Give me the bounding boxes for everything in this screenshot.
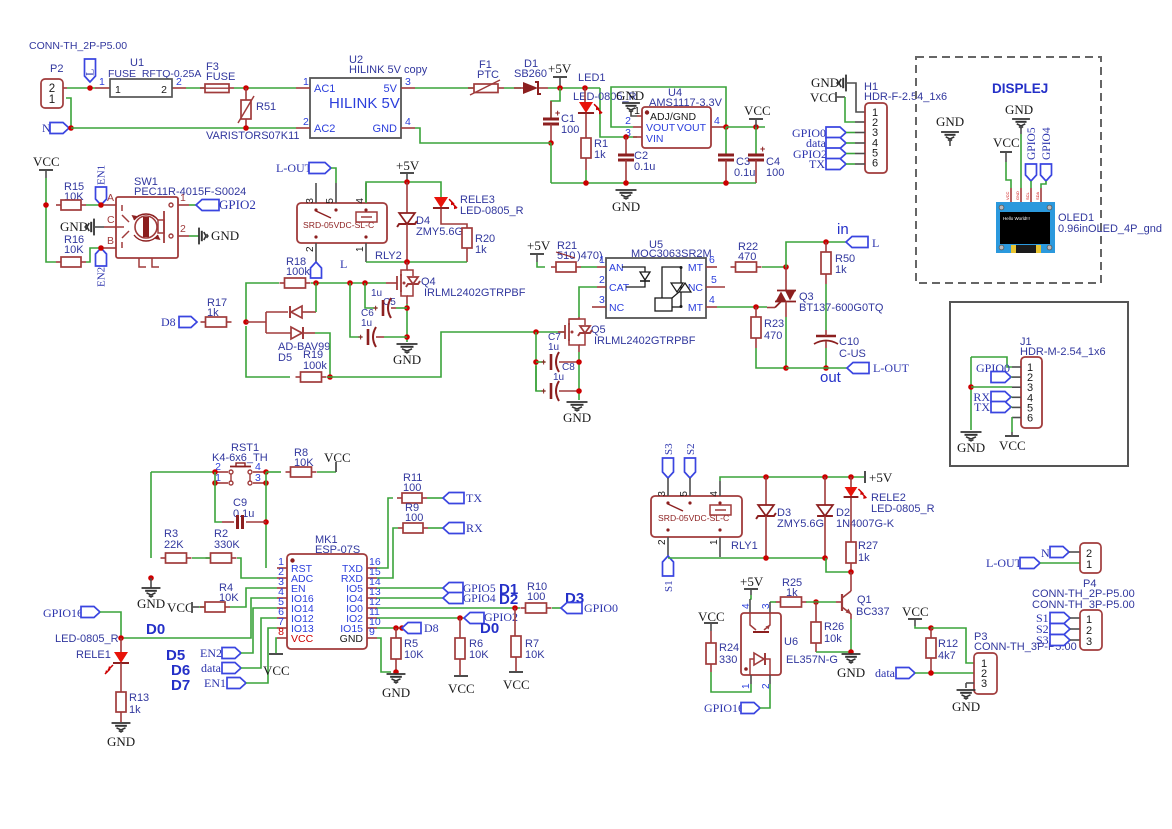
svg-text:GPIO4: GPIO4 — [1041, 127, 1053, 160]
junction gnd rail C2 — [623, 180, 629, 186]
transistor Q1 BC337 — [836, 572, 890, 619]
junction R5 gnd — [393, 669, 399, 675]
capacitor C2 — [618, 137, 655, 183]
connector footprint labels — [1032, 588, 1135, 611]
svg-text:BC337: BC337 — [856, 606, 890, 618]
resistor R2 — [206, 528, 241, 563]
resistor R11 — [397, 472, 427, 503]
svg-text:GND: GND — [957, 440, 985, 455]
svg-text:in: in — [837, 221, 849, 238]
net flag TX (J1) — [974, 400, 1012, 414]
svg-text:LED-0805_R: LED-0805_R — [55, 633, 119, 645]
svg-text:SDA: SDA — [1035, 191, 1040, 200]
svg-text:EN2: EN2 — [96, 267, 108, 287]
net flag TX (H1) — [809, 157, 855, 171]
svg-text:100k: 100k — [286, 266, 310, 278]
svg-text:VCC: VCC — [698, 609, 725, 624]
net flag D8 (r17) — [161, 315, 197, 329]
svg-text:+5V: +5V — [740, 574, 764, 589]
svg-text:TX: TX — [809, 157, 825, 171]
svg-text:R51: R51 — [256, 101, 276, 113]
svg-text:100: 100 — [527, 591, 545, 603]
junction R17/D5 — [243, 319, 249, 325]
svg-text:5: 5 — [711, 274, 717, 286]
junction +5V rail at LED1 — [582, 85, 588, 91]
svg-text:AN: AN — [609, 262, 624, 274]
wire R16 to B — [86, 248, 104, 262]
ground GND (R13) — [107, 723, 135, 749]
wire D5 bracket — [246, 312, 266, 333]
wire Q5 gate col down — [535, 332, 537, 391]
svg-text:FUSE: FUSE — [206, 71, 235, 83]
svg-text:C: C — [107, 214, 115, 226]
svg-text:R26: R26 — [824, 621, 844, 633]
power port VCC (R24) — [698, 609, 725, 631]
capacitor C8 — [536, 362, 579, 401]
svg-text:VCC: VCC — [33, 154, 60, 169]
svg-text:2: 2 — [305, 246, 316, 252]
resistor R25 — [776, 577, 807, 607]
resistor R15 — [56, 181, 86, 210]
svg-text:GND: GND — [1005, 102, 1033, 117]
wire Q4 source to gnd — [406, 304, 408, 342]
svg-text:RLY1: RLY1 — [731, 540, 758, 552]
svg-text:0.1u: 0.1u — [634, 161, 655, 173]
wire J1 pin1 loop — [971, 357, 1012, 367]
resistor R17 — [201, 297, 232, 327]
ground GND (displej left) — [936, 114, 964, 146]
DISPLEJ title — [992, 81, 1048, 96]
svg-text:A: A — [107, 192, 114, 204]
svg-text:R24: R24 — [719, 642, 739, 654]
wire J1 gnd column — [970, 357, 972, 430]
LED RELE1 — [105, 638, 129, 692]
svg-text:1k: 1k — [475, 244, 487, 256]
resistor R7 — [511, 608, 545, 672]
ground GND (R3) — [137, 578, 165, 611]
svg-text:L-OUT: L-OUT — [276, 161, 313, 175]
svg-text:HILINK 5V copy: HILINK 5V copy — [349, 64, 428, 76]
wire rst1 left col to C9 — [215, 472, 222, 522]
wire IO0 row — [377, 607, 520, 609]
svg-text:NC: NC — [609, 302, 625, 314]
svg-text:RLY2: RLY2 — [375, 250, 402, 262]
capacitor C5 — [365, 283, 407, 318]
label D8 (esp) — [424, 621, 439, 635]
wire R15 to A — [86, 204, 104, 206]
resistor R18 — [280, 256, 311, 288]
svg-text:3: 3 — [599, 294, 605, 306]
wire R18 left down to R17 row — [246, 283, 279, 322]
svg-text:4: 4 — [714, 115, 720, 127]
varistor R51 — [238, 88, 276, 128]
svg-text:10K: 10K — [525, 649, 545, 661]
junction IO0/R7 — [512, 605, 518, 611]
svg-text:C10: C10 — [839, 336, 859, 348]
relay RLY1 — [651, 478, 758, 557]
net flag GPIO0 (J1) — [976, 361, 1012, 383]
resistor R27 — [846, 540, 878, 572]
resistor R16 — [56, 234, 86, 267]
svg-text:ZMY5.6G: ZMY5.6G — [416, 226, 463, 238]
svg-text:GND: GND — [137, 596, 165, 611]
svg-text:SCL: SCL — [1025, 191, 1030, 200]
svg-text:L: L — [83, 69, 97, 76]
wire R9 to RX flag — [428, 527, 443, 529]
svg-text:1: 1 — [49, 94, 55, 106]
junction R12 top — [928, 625, 934, 631]
wire N line — [71, 127, 296, 129]
junction rst1 br — [263, 480, 269, 486]
junction F3/R51 — [243, 85, 249, 91]
ground GND (R5) — [382, 674, 410, 700]
power port +5V (rly2) — [396, 158, 420, 182]
svg-text:S2: S2 — [685, 443, 697, 455]
svg-text:L: L — [340, 257, 347, 271]
svg-text:TX: TX — [974, 400, 990, 414]
junction +5V rail at C1 drop — [557, 85, 563, 91]
svg-text:EN2: EN2 — [200, 646, 222, 660]
wire R25 left to U6 pin3 — [770, 602, 776, 613]
svg-text:U6: U6 — [784, 636, 798, 648]
svg-text:1N4007G-K: 1N4007G-K — [836, 518, 895, 530]
net flag L-OUT (rly2) — [276, 161, 336, 183]
svg-text:5V: 5V — [384, 83, 398, 95]
junction N line — [68, 125, 74, 131]
net flag data (p3) — [875, 666, 915, 680]
svg-text:1k: 1k — [858, 552, 870, 564]
junction gnd/C6 — [404, 334, 410, 340]
OLED pin stubs — [1005, 188, 1041, 202]
svg-text:1: 1 — [303, 76, 309, 88]
net label D0 (gpio2) — [480, 620, 499, 637]
net flag data (esp) — [201, 618, 277, 675]
resistor R9 — [398, 502, 428, 533]
wire F1 to D1 — [504, 87, 521, 89]
push button RST1 — [212, 442, 268, 485]
wire VCC column — [46, 178, 56, 262]
wire C1 junction down to gnd rail — [550, 143, 552, 183]
net flag GPIO5 (esp) — [443, 583, 496, 596]
svg-text:D8: D8 — [161, 315, 176, 329]
svg-text:0.1u: 0.1u — [734, 167, 755, 179]
svg-text:2: 2 — [625, 115, 631, 127]
wire R4 to EN — [230, 588, 277, 607]
ground GND (encoder pin2) — [189, 228, 239, 245]
junction rail D2 — [822, 474, 828, 480]
junction C9 right — [263, 519, 269, 525]
net flag S2 (p4) — [1036, 622, 1080, 636]
svg-text:GND: GND — [936, 114, 964, 129]
net flag S3 (p4) — [1036, 633, 1080, 647]
junction gate/C6col — [347, 280, 353, 286]
power port VCC (esp pin8) — [263, 638, 290, 678]
svg-text:R13: R13 — [129, 692, 149, 704]
wire P2 pin2 to node L — [67, 87, 95, 89]
wire +5V rail rly2 — [366, 182, 441, 203]
svg-text:1: 1 — [99, 76, 105, 88]
wire node up to in — [786, 242, 846, 267]
connector P2 — [41, 63, 67, 108]
svg-text:L-OUT: L-OUT — [873, 361, 910, 375]
svg-text:VCC: VCC — [1005, 191, 1010, 200]
svg-text:1u: 1u — [361, 318, 372, 329]
net flag TX (esp) — [443, 491, 482, 505]
junction IO15 flag — [399, 625, 405, 631]
varistor value label — [206, 130, 300, 142]
resistor R5 — [391, 628, 424, 672]
ground GND (p3) — [952, 690, 980, 714]
wire GND pin9 — [377, 638, 391, 672]
power port VCC (R8) — [324, 450, 351, 472]
svg-text:+5V: +5V — [869, 470, 893, 485]
junction R51 bottom — [243, 125, 249, 131]
power port +5V (main) — [548, 61, 572, 88]
svg-text:GND: GND — [616, 88, 644, 103]
power port +5V (u5) — [527, 238, 551, 267]
resistor R23 — [751, 307, 786, 368]
junction R12 bottom — [928, 670, 934, 676]
header J1 — [1012, 336, 1106, 428]
resistor R26 — [811, 602, 844, 652]
svg-text:GPIO5: GPIO5 — [1026, 127, 1038, 160]
svg-text:5: 5 — [325, 198, 336, 204]
wire TXD to R11 — [377, 498, 393, 568]
wire R11 to TX flag — [427, 497, 443, 499]
wire rail jog to R27 — [826, 558, 851, 572]
wire rly1 +5V rail — [720, 477, 865, 481]
label LED-0805_R (rele1) — [55, 633, 119, 645]
junction IO15/R5 — [393, 625, 399, 631]
svg-text:510: 510 — [557, 250, 575, 262]
net flag GPIO4 (esp) — [443, 593, 496, 606]
wire D5 upper to R18 junction — [315, 283, 317, 312]
svg-text:C-US: C-US — [839, 348, 866, 360]
svg-text:+: + — [555, 108, 560, 118]
wire D1 to corner/+5V rail — [548, 87, 600, 89]
wire R8 to VCC — [317, 471, 336, 473]
connector P3 — [966, 631, 1077, 694]
junction R27/Q1 — [848, 569, 854, 575]
capacitor C6 — [350, 283, 407, 347]
svg-text:HILINK 5V: HILINK 5V — [329, 95, 400, 112]
power port VCC (3V3) — [744, 103, 771, 127]
svg-text:2: 2 — [161, 84, 167, 96]
junction node A — [98, 202, 104, 208]
svg-text:10K: 10K — [469, 649, 489, 661]
net label out / flag L-OUT — [820, 361, 910, 386]
svg-text:out: out — [820, 369, 842, 386]
svg-text:EL357N-G: EL357N-G — [786, 654, 838, 666]
svg-text:D0: D0 — [480, 620, 499, 637]
resistor R21 — [551, 240, 603, 272]
capacitor C1 — [543, 88, 579, 143]
svg-text:GPIO0: GPIO0 — [584, 601, 618, 615]
opto U6 EL357N — [741, 603, 838, 689]
wire R2 to ADC — [237, 558, 277, 578]
net label D2 — [499, 591, 518, 608]
junction rail RELE2 — [848, 474, 854, 480]
svg-text:5: 5 — [679, 491, 690, 497]
wire D5 lower to R19 column — [315, 333, 330, 377]
wire +5V rail corner down to VIN — [600, 88, 637, 137]
net flag S2 vertical (rly1) — [685, 443, 698, 478]
wire rst1 right col — [265, 472, 267, 568]
svg-text:GND: GND — [60, 219, 88, 234]
zener D3 ZMY5.6G — [756, 477, 824, 558]
resistor R20 — [462, 228, 495, 262]
wire U2 5V to F1 — [415, 87, 474, 89]
svg-text:BT137-600G0TQ: BT137-600G0TQ — [799, 302, 884, 314]
ground GND (H1) — [811, 75, 865, 112]
rotary encoder SW1 — [104, 176, 246, 267]
junction C1 bottom / U2 gnd return — [548, 140, 554, 146]
svg-text:VARISTORS07K11: VARISTORS07K11 — [206, 130, 300, 142]
svg-text:22K: 22K — [164, 539, 184, 551]
capacitor C3 — [718, 127, 755, 183]
svg-text:GND: GND — [612, 199, 640, 214]
PTC fuse F1 — [468, 59, 504, 95]
power port VCC (J1) — [999, 432, 1026, 453]
junction C7 right — [576, 359, 582, 365]
junction out rail q3 — [783, 365, 789, 371]
dual diode D5 AD-BAV99 — [266, 306, 330, 364]
net flag D8 (esp) — [402, 623, 421, 634]
junction gnd rail C3 — [723, 180, 729, 186]
wire D0 row — [121, 598, 277, 638]
svg-text:S3: S3 — [1036, 633, 1049, 647]
svg-text:6: 6 — [709, 254, 715, 266]
net flag S1 vertical (rly1) — [663, 556, 676, 592]
ground GND (q5) — [563, 402, 591, 425]
resistor R1 — [581, 138, 608, 183]
svg-text:VCC: VCC — [167, 600, 194, 615]
net label D3 — [565, 590, 584, 607]
svg-text:330K: 330K — [214, 539, 240, 551]
svg-text:R27: R27 — [858, 540, 878, 552]
junction gate/pin? d5 — [313, 280, 319, 286]
svg-text:4: 4 — [709, 491, 720, 497]
transistor Q4 IRLML2402 — [386, 262, 526, 304]
fuse U1 — [95, 57, 201, 97]
wire R17 col to R19 — [246, 326, 290, 377]
svg-text:+: + — [760, 144, 765, 154]
svg-text:+5V: +5V — [548, 61, 572, 76]
svg-text:GND: GND — [811, 75, 839, 90]
svg-text:LED1: LED1 — [578, 72, 606, 84]
svg-text:1: 1 — [180, 192, 186, 204]
net flag S3 vertical (rly1) — [663, 443, 676, 478]
svg-text:VCC: VCC — [902, 604, 929, 619]
junction Q4 gnd/C5 — [404, 305, 410, 311]
wire rst1 to R8 — [266, 471, 281, 473]
wire R21 to U5 an — [581, 266, 597, 268]
svg-text:SB260: SB260 — [514, 68, 547, 80]
svg-text:GND: GND — [382, 685, 410, 700]
svg-text:1k: 1k — [594, 149, 606, 161]
svg-text:S1: S1 — [663, 580, 675, 592]
svg-text:VIN: VIN — [646, 133, 664, 145]
wire data to P3 pin2 — [915, 672, 974, 674]
net flag S1 (p4) — [1036, 611, 1080, 625]
svg-text:10K: 10K — [64, 244, 84, 256]
svg-text:1: 1 — [355, 246, 366, 252]
svg-text:RELE1: RELE1 — [76, 649, 111, 661]
relay RLY2 — [297, 183, 402, 262]
net flag GPIO0 (esp) — [552, 601, 618, 615]
svg-text:3: 3 — [305, 198, 316, 204]
svg-text:CONN-TH_2P-P5.00: CONN-TH_2P-P5.00 — [29, 40, 127, 52]
svg-text:GND: GND — [952, 699, 980, 714]
diode D2 1N4007 — [817, 477, 895, 558]
junction in/R50 — [823, 239, 829, 245]
svg-text:1: 1 — [634, 105, 640, 117]
LED RELE2 — [844, 477, 935, 542]
resistor R8 — [286, 447, 317, 477]
wire R22 to node — [762, 266, 786, 268]
resistor R19 — [296, 349, 328, 382]
power port +5V (rly1) — [865, 470, 893, 485]
svg-text:PTC: PTC — [477, 69, 499, 81]
net flag N (p4) — [1041, 546, 1080, 560]
svg-text:RX: RX — [466, 521, 483, 535]
svg-text:6: 6 — [872, 158, 878, 170]
svg-text:3: 3 — [405, 76, 411, 88]
wire U1 to F3 — [186, 87, 205, 89]
junction Q5 gate col — [533, 329, 539, 335]
svg-text:8: 8 — [278, 626, 284, 638]
junction rst1 bl — [212, 480, 218, 486]
zener D4 ZMY5.6G — [397, 182, 463, 262]
connector P4 — [1080, 543, 1101, 590]
wire R3-R2 — [192, 557, 210, 559]
svg-text:1: 1 — [709, 539, 720, 545]
junction gnd rail R1 — [583, 180, 589, 186]
svg-text:GPIO4: GPIO4 — [463, 593, 496, 605]
svg-text:3: 3 — [981, 678, 987, 690]
power port VCC (oled) — [993, 135, 1020, 188]
LED RELE3 — [433, 194, 524, 228]
svg-text:D5: D5 — [278, 352, 292, 364]
net label D5 — [166, 647, 185, 664]
label RELE1 — [76, 649, 111, 661]
svg-text:2: 2 — [180, 223, 186, 235]
svg-text:data: data — [875, 666, 896, 680]
svg-text:470: 470 — [764, 330, 782, 342]
capacitor C10 — [814, 330, 866, 368]
schottky diode D1 SB260 — [514, 58, 548, 94]
net flag GPIO5 vertical (oled) — [1026, 127, 1039, 188]
svg-text:1k: 1k — [129, 704, 141, 716]
svg-text:GND: GND — [563, 410, 591, 425]
wire R25 to Q1 base — [806, 601, 836, 603]
net flag RX (J1) — [973, 390, 1012, 404]
svg-text:GND: GND — [837, 665, 865, 680]
fuse F3 — [200, 61, 235, 93]
net flag GPIO16 (led) — [43, 606, 121, 638]
svg-text:2: 2 — [657, 539, 668, 545]
svg-text:data: data — [201, 661, 222, 675]
svg-text:1: 1 — [599, 254, 605, 266]
regulator U4 AMS1117 — [625, 87, 726, 148]
power port VCC (encoder) — [33, 154, 60, 178]
wire J1 pin3 — [971, 386, 1012, 388]
junction Q1e/R26 gnd — [848, 649, 854, 655]
junction R25/R26 — [813, 599, 819, 605]
capacitor C9 — [222, 497, 266, 529]
resistor R6 — [455, 618, 489, 676]
svg-text:D8: D8 — [424, 621, 439, 635]
